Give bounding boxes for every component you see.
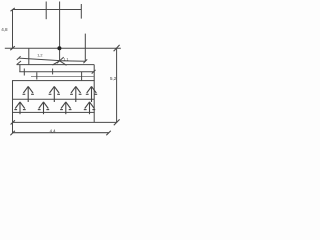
svg-text:1,1: 1,1 xyxy=(63,57,68,61)
svg-text:4,4: 4,4 xyxy=(50,129,57,134)
svg-text:1,2: 1,2 xyxy=(37,53,42,57)
svg-text:5,2: 5,2 xyxy=(110,76,117,81)
svg-text:4,8: 4,8 xyxy=(1,27,8,32)
